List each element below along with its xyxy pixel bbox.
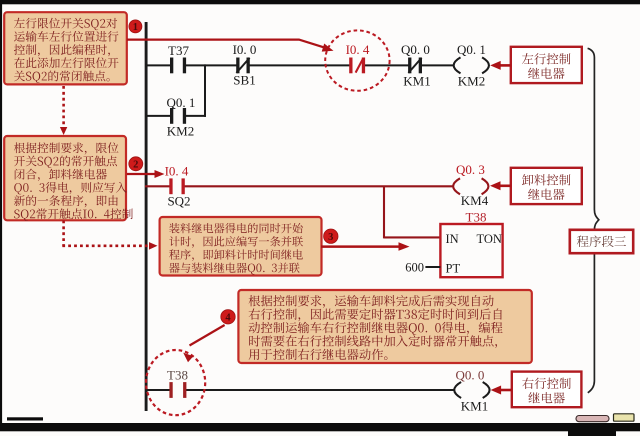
numbered circle 1 <box>129 20 142 33</box>
left power rail <box>145 22 148 411</box>
svg-text:SQ2: SQ2 <box>167 194 190 209</box>
numbered circle 4 <box>221 310 235 324</box>
coil Q0.1 KM2 <box>454 57 461 73</box>
svg-text:Q0. 1: Q0. 1 <box>167 95 196 110</box>
dashed highlight circle around T38 <box>146 350 205 415</box>
svg-text:Q0. 0: Q0. 0 <box>456 368 485 383</box>
arrow to KM1 coil <box>500 389 512 392</box>
svg-text:4: 4 <box>225 312 231 323</box>
svg-text:T38: T38 <box>466 210 487 225</box>
svg-text:T38: T38 <box>167 368 188 383</box>
contact I0.4 NC (red) <box>349 58 352 74</box>
dashed highlight circle around I0.4 <box>325 30 389 90</box>
rung 4 wire <box>145 389 170 391</box>
svg-text:I0. 4: I0. 4 <box>346 42 370 57</box>
timer T38 block <box>440 224 502 277</box>
tiny pink object bottom-right <box>576 416 609 422</box>
annotation box 3 <box>160 217 322 276</box>
branch vertical wire <box>204 64 206 117</box>
svg-text:Q0. 3: Q0. 3 <box>456 162 485 177</box>
coil Q0.0 KM1 <box>454 382 461 398</box>
contact I0.4 SQ2 (red) <box>169 178 172 194</box>
label box unload control relay <box>511 168 582 204</box>
arrow from box4 to T38 contact <box>190 325 225 346</box>
wire 600 to PT <box>425 266 440 268</box>
top border bar <box>0 0 640 4</box>
arrow to KM4 coil <box>499 185 511 188</box>
label box program segment 3 <box>570 230 633 253</box>
contact I0.0 NC <box>236 58 239 74</box>
branch wire to timer (red) <box>383 186 385 238</box>
rung 2 wire (red) <box>145 185 170 187</box>
annotation box 1 <box>4 12 127 84</box>
contact T37 <box>170 58 173 74</box>
svg-text:SB1: SB1 <box>233 73 255 88</box>
dotted arrow box2 to box3 <box>62 221 65 246</box>
svg-text:I0. 0: I0. 0 <box>233 42 257 57</box>
arrow from box2 to I0.4 rung2 <box>127 173 156 175</box>
rung 1 wire <box>145 64 171 66</box>
contact Q0.1 branch <box>170 108 173 124</box>
svg-text:600: 600 <box>405 261 424 275</box>
branch wire <box>145 115 171 117</box>
svg-text:KM4: KM4 <box>461 193 489 208</box>
tiny yellow object bottom-right <box>614 414 635 421</box>
coil Q0.3 KM4 (red) <box>453 178 460 194</box>
svg-text:TON: TON <box>477 232 502 246</box>
bottom border bar <box>0 423 640 431</box>
svg-text:2: 2 <box>133 159 138 170</box>
label box left-travel control relay <box>511 47 582 83</box>
svg-text:Q0. 0: Q0. 0 <box>401 42 430 57</box>
label box right-travel control relay <box>512 372 582 408</box>
svg-text:IN: IN <box>446 232 459 246</box>
dotted arrow box1 to box2 <box>62 86 65 128</box>
contact T38 <box>169 382 172 398</box>
arrow to KM2 coil <box>499 64 511 67</box>
svg-text:1: 1 <box>133 22 138 33</box>
svg-text:KM1: KM1 <box>461 399 488 414</box>
small black mark bottom-left <box>7 417 43 420</box>
svg-text:KM2: KM2 <box>458 74 485 89</box>
numbered circle 3 <box>324 229 338 243</box>
svg-text:Q0. 1: Q0. 1 <box>457 42 486 57</box>
numbered circle 2 <box>129 157 143 171</box>
arrow from box3 to timer <box>321 245 400 248</box>
left border bar <box>0 0 2 423</box>
svg-text:KM2: KM2 <box>167 124 194 139</box>
annotation box 2 <box>4 136 126 220</box>
svg-text:PT: PT <box>446 262 461 276</box>
svg-text:3: 3 <box>328 232 333 243</box>
bottom-right black tab <box>568 423 616 436</box>
svg-text:I0. 4: I0. 4 <box>165 164 189 179</box>
brace for program segment 3 <box>588 48 599 393</box>
svg-text:T37: T37 <box>168 43 189 58</box>
arrow from box1 to I0.4 <box>127 40 327 49</box>
svg-text:KM1: KM1 <box>403 74 430 89</box>
annotation box 4 <box>238 290 531 363</box>
contact Q0.0 NC <box>408 58 411 74</box>
